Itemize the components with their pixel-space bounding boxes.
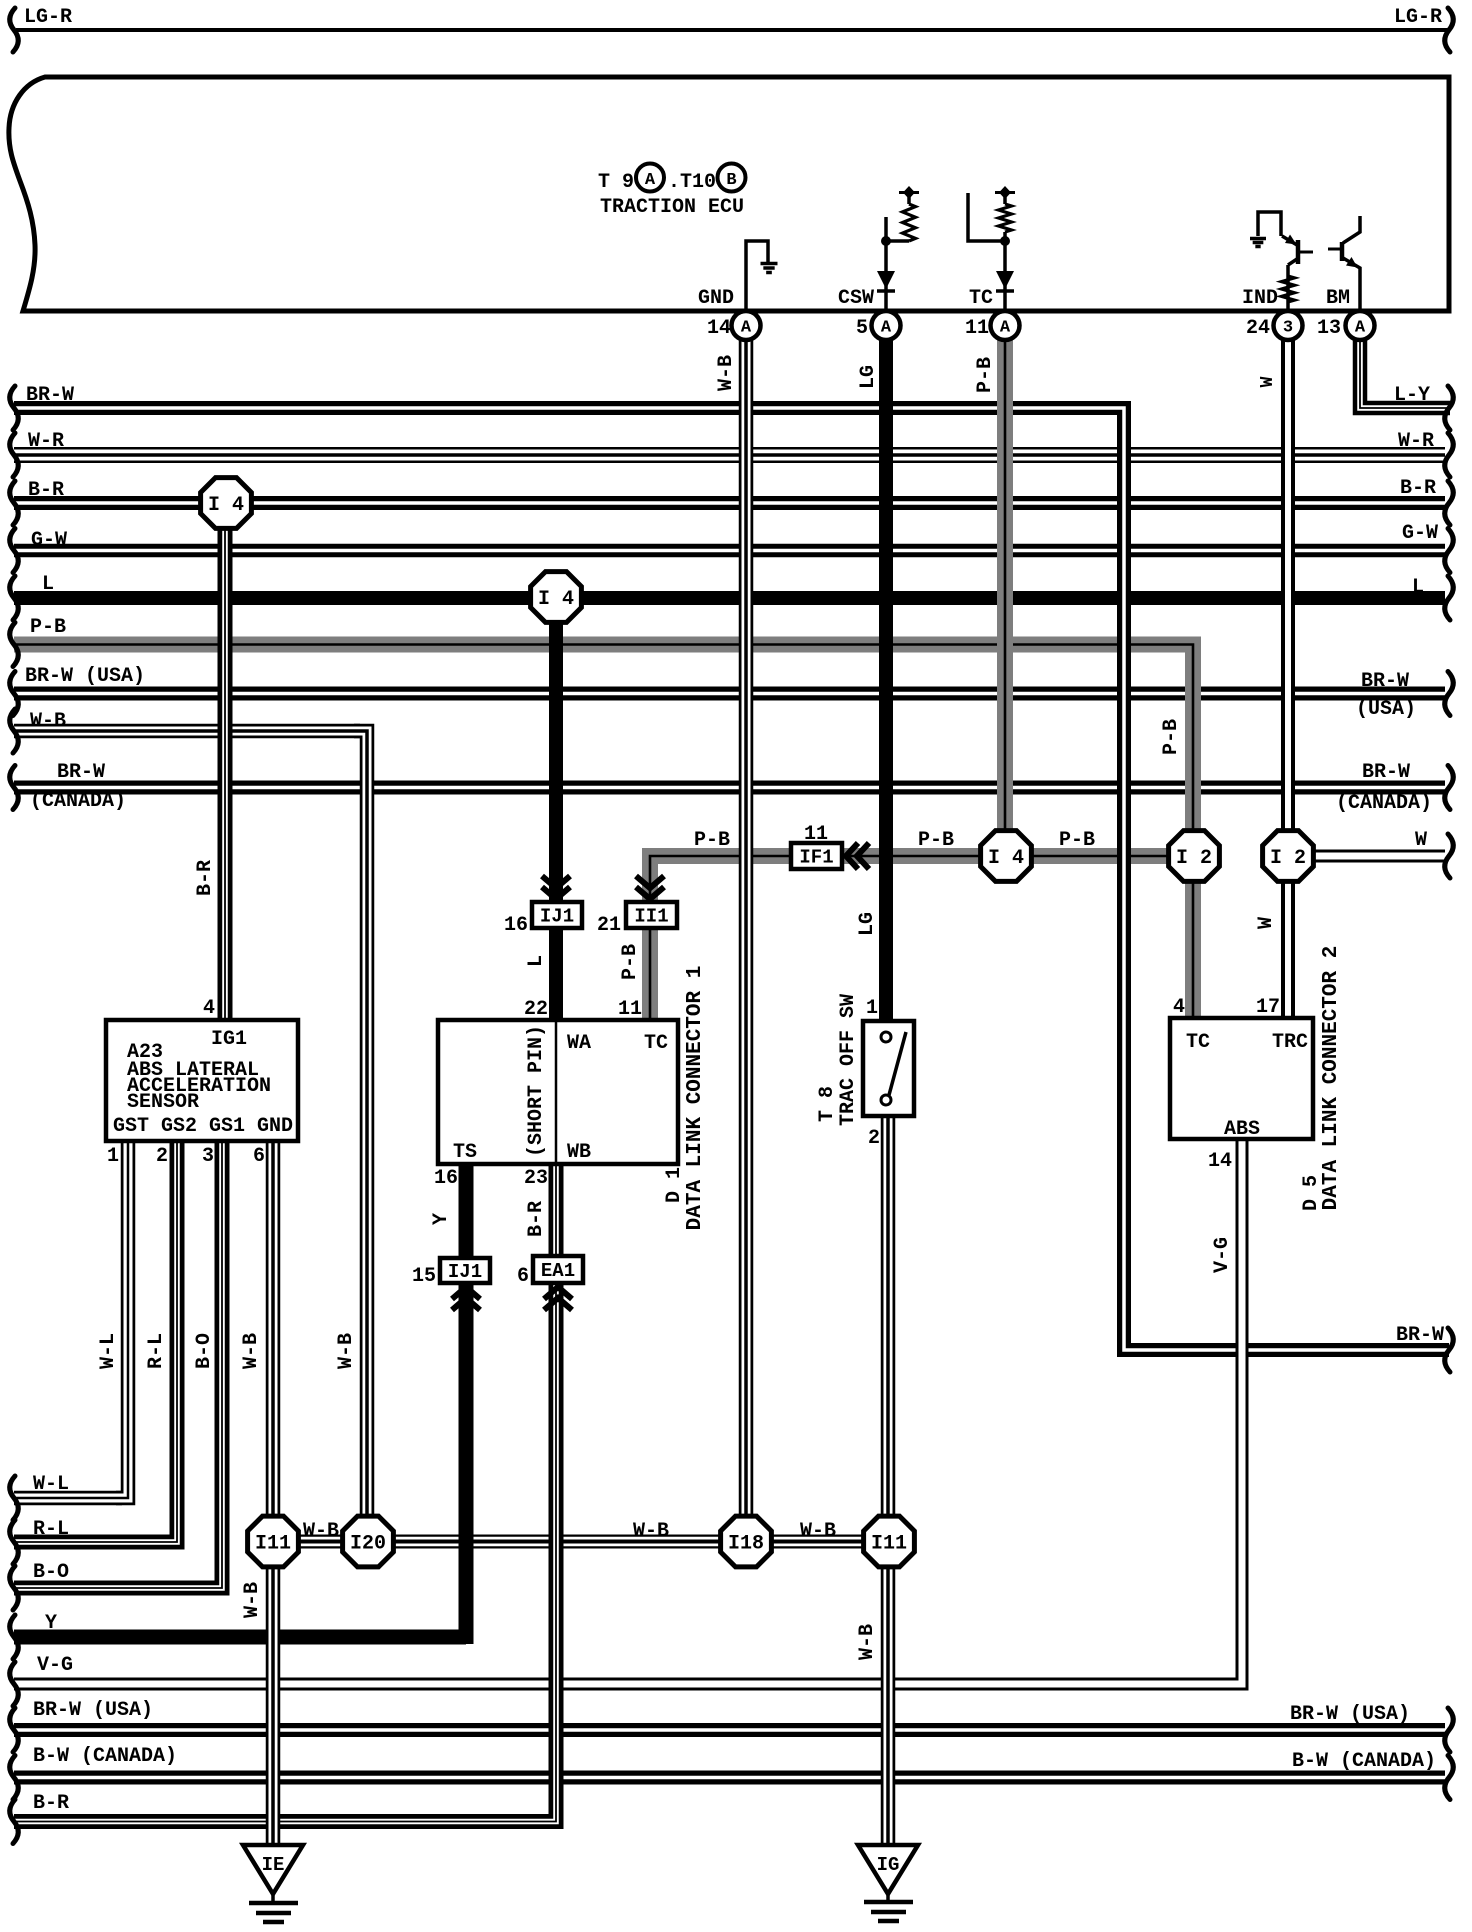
svg-text:4: 4 — [1173, 996, 1185, 1019]
svg-text:P-B: P-B — [974, 357, 997, 393]
svg-text:(CANADA): (CANADA) — [30, 790, 126, 813]
svg-text:V-G: V-G — [1211, 1237, 1234, 1273]
wire bus W-L — [14, 1491, 122, 1506]
wire P-B from II1 to D1 — [650, 856, 666, 1024]
break symbol left y=455 — [10, 433, 19, 477]
break symbol left y=787.5 — [10, 766, 19, 810]
break symbol left y=1542 — [10, 1520, 19, 1564]
wire bus BR-W (USA) bottom — [14, 1723, 1445, 1737]
ground IG — [858, 1845, 918, 1894]
ECU pin 11(A) TC — [991, 311, 1020, 340]
svg-text:13: 13 — [1317, 317, 1341, 340]
svg-text:P-B: P-B — [918, 829, 954, 852]
svg-text:II1: II1 — [634, 906, 668, 928]
svg-text:A: A — [645, 171, 656, 190]
svg-text:B-W (CANADA): B-W (CANADA) — [33, 1745, 177, 1768]
svg-text:G-W: G-W — [1402, 522, 1438, 545]
ECU pin 14(A) GND — [732, 311, 761, 340]
svg-text:1: 1 — [107, 1145, 119, 1168]
svg-text:TRACTION ECU: TRACTION ECU — [600, 196, 744, 219]
svg-text:W-L: W-L — [33, 1473, 69, 1496]
break symbol left y=1777.5 — [10, 1756, 19, 1800]
break symbol left y=644.5 — [10, 623, 19, 667]
wire W row right — [1288, 850, 1445, 863]
break symbol right y=408 — [1445, 386, 1454, 430]
wire bus BR-W (USA) top — [14, 687, 1445, 701]
svg-text:(SHORT PIN): (SHORT PIN) — [525, 1025, 548, 1157]
svg-text:I20: I20 — [350, 1533, 386, 1556]
svg-text:TC: TC — [644, 1032, 668, 1055]
wire W-B bus corner to I20 — [354, 731, 367, 1541]
svg-text:A: A — [1000, 319, 1011, 338]
break symbol left y=503 — [10, 481, 19, 525]
svg-text:A: A — [1355, 319, 1366, 338]
wire bus G-W — [14, 544, 1445, 558]
svg-text:V-G: V-G — [37, 1654, 73, 1677]
break symbol left y=598 — [10, 576, 19, 620]
svg-text:2: 2 — [156, 1145, 168, 1168]
arrow from IJ1 pin15 — [452, 1287, 480, 1299]
connector I11 left — [248, 1516, 299, 1567]
break symbol right y=693.5 — [1445, 672, 1454, 716]
svg-text:EA1: EA1 — [541, 1260, 575, 1282]
svg-text:17: 17 — [1256, 996, 1280, 1019]
wire bus W-R — [14, 447, 1445, 463]
svg-text:2: 2 — [868, 1127, 880, 1150]
break symbol left y=1684 — [10, 1662, 19, 1706]
break symbol left y=1637 — [10, 1615, 19, 1659]
svg-text:IND: IND — [1242, 287, 1278, 310]
wire Y from D1 TS — [459, 1160, 474, 1644]
wire bus B-O — [14, 1581, 215, 1596]
connector I4 on B-R bus — [201, 478, 252, 529]
wire BR-W corner right — [1110, 408, 1449, 1350]
svg-text:IG1: IG1 — [211, 1028, 247, 1051]
svg-text:W-R: W-R — [28, 430, 64, 453]
wire L thick from I4 to D1 — [549, 610, 563, 1024]
svg-text:IF1: IF1 — [799, 847, 833, 869]
arrow into IJ1 — [542, 876, 570, 888]
svg-text:G-W: G-W — [31, 529, 67, 552]
svg-text:BR-W: BR-W — [57, 761, 105, 784]
wire P-B row IF1 — [650, 848, 1186, 864]
svg-text:IE: IE — [262, 1854, 285, 1876]
svg-text:(USA): (USA) — [1356, 698, 1416, 721]
svg-text:SENSOR: SENSOR — [127, 1091, 199, 1114]
svg-text:11: 11 — [804, 823, 828, 846]
svg-text:I11: I11 — [255, 1533, 291, 1556]
wire bus P-B — [14, 637, 1186, 653]
svg-text:I 4: I 4 — [988, 847, 1024, 870]
svg-text:14: 14 — [1208, 1150, 1232, 1173]
svg-text:P-B: P-B — [694, 829, 730, 852]
break symbol right y=503 — [1445, 481, 1454, 525]
break symbol left y=693.5 — [10, 672, 19, 716]
svg-text:LG: LG — [857, 365, 880, 389]
arrow into IF1 — [846, 843, 858, 869]
svg-text:W: W — [1255, 917, 1278, 929]
wire W-B to A23 pin6 and IE — [266, 1132, 281, 1852]
wire P-B branch to D5 — [1180, 645, 1193, 1025]
svg-text:B-R: B-R — [194, 860, 217, 896]
svg-text:P-B: P-B — [30, 616, 66, 639]
svg-text:14: 14 — [707, 317, 731, 340]
svg-text:L: L — [1412, 576, 1424, 599]
svg-text:16: 16 — [504, 914, 528, 937]
svg-text:.T10: .T10 — [668, 171, 716, 194]
svg-text:W-B: W-B — [241, 1582, 264, 1618]
svg-text:GST GS2 GS1 GND: GST GS2 GS1 GND — [113, 1115, 293, 1138]
svg-text:W-B: W-B — [335, 1333, 358, 1369]
wire bus B-R bottom — [14, 1814, 549, 1829]
break symbol right y=1730 — [1445, 1708, 1454, 1752]
wire bus B-W (CANADA) bottom — [14, 1771, 1445, 1785]
svg-text:(CANADA): (CANADA) — [1336, 792, 1432, 815]
connector EA1 pin 6 — [533, 1256, 583, 1283]
wire bus R-L — [14, 1535, 170, 1550]
ECU pin 5(A) CSW — [872, 311, 901, 340]
ECU pin 13(A) BM — [1346, 311, 1375, 340]
connector IJ1 pin 16 — [532, 902, 582, 928]
svg-text:DATA LINK CONNECTOR 1: DATA LINK CONNECTOR 1 — [684, 966, 707, 1231]
break symbol right y=856 — [1445, 834, 1454, 878]
break symbol left y=1821.5 — [10, 1800, 19, 1844]
connector I4 on L bus — [531, 572, 582, 623]
connector I2 right — [1263, 831, 1314, 882]
svg-text:3: 3 — [202, 1145, 214, 1168]
wire P-B from TC pin — [997, 330, 1013, 858]
wire LG-R top — [16, 28, 1449, 32]
svg-text:BR-W (USA): BR-W (USA) — [25, 665, 145, 688]
wire B-R from D1 WB — [542, 1160, 556, 1822]
connector I20 — [343, 1516, 394, 1567]
svg-text:W-B: W-B — [856, 1624, 879, 1660]
svg-text:WA: WA — [567, 1032, 591, 1055]
svg-text:TS: TS — [453, 1141, 477, 1164]
svg-text:W-R: W-R — [1398, 430, 1434, 453]
svg-text:B-W (CANADA): B-W (CANADA) — [1292, 1750, 1436, 1773]
svg-text:LG: LG — [856, 912, 879, 936]
break symbol right y=550.5 — [1445, 529, 1454, 573]
svg-text:W-B: W-B — [633, 1520, 669, 1543]
wire W-B octagon row — [273, 1535, 890, 1549]
svg-text:15: 15 — [412, 1265, 436, 1288]
svg-text:TC: TC — [969, 287, 993, 310]
svg-text:LG-R: LG-R — [24, 6, 72, 29]
svg-text:ABS: ABS — [1224, 1118, 1260, 1141]
svg-text:R-L: R-L — [33, 1518, 69, 1541]
wire R-L to A23 pin2 — [164, 1132, 177, 1542]
break symbol right y=455 — [1445, 433, 1454, 477]
svg-text:W-B: W-B — [303, 1520, 339, 1543]
ECU pin 24(3) IND — [1274, 311, 1303, 340]
svg-text:I 2: I 2 — [1270, 847, 1306, 870]
component A23 ABS lateral acceleration sensor — [106, 1020, 298, 1141]
wire L-Y from BM pin — [1360, 330, 1450, 408]
component D5 data link connector 2 — [1170, 1018, 1313, 1139]
svg-text:I18: I18 — [728, 1533, 764, 1556]
svg-text:16: 16 — [434, 1167, 458, 1190]
ECU internal ground at GND pin — [746, 241, 768, 311]
svg-text:22: 22 — [524, 998, 548, 1021]
arrow into II1 — [636, 876, 664, 888]
ECU internal transistor at BM — [1343, 216, 1360, 243]
svg-text:W: W — [1258, 376, 1278, 387]
wire W-B from GND pin — [739, 330, 754, 1541]
wire W-L to A23 pin1 — [116, 1132, 128, 1498]
component T8 TRAC OFF SW — [863, 1021, 914, 1116]
svg-text:IJ1: IJ1 — [448, 1261, 482, 1283]
svg-text:W-B: W-B — [800, 1520, 836, 1543]
svg-text:P-B: P-B — [1059, 829, 1095, 852]
component D1 data link connector 1 — [438, 1020, 678, 1164]
wire bus B-R — [14, 496, 1445, 510]
wire W-B from T8 to IG — [881, 1110, 896, 1852]
wire bus Y — [14, 1630, 466, 1645]
svg-text:BR-W: BR-W — [1396, 1324, 1444, 1347]
break symbol left y=408 — [10, 386, 19, 430]
svg-text:3: 3 — [1283, 319, 1293, 338]
svg-text:Y: Y — [45, 1612, 57, 1635]
wire B-O to A23 pin3 — [209, 1132, 222, 1588]
svg-text:1: 1 — [866, 997, 878, 1020]
svg-text:TRC: TRC — [1272, 1031, 1308, 1054]
svg-text:W-B: W-B — [715, 355, 738, 391]
connector II1 pin 21 — [626, 902, 677, 928]
svg-text:6: 6 — [253, 1145, 265, 1168]
wire bus W-B — [14, 724, 360, 739]
svg-text:11: 11 — [965, 317, 989, 340]
svg-text:GND: GND — [698, 287, 734, 310]
svg-text:BR-W (USA): BR-W (USA) — [1290, 1703, 1410, 1726]
ECU internal diode/resistor at CSW — [884, 217, 888, 311]
connector I4 on P-B row — [981, 831, 1032, 882]
arrow from EA1 pin6 — [544, 1287, 572, 1299]
svg-text:DATA LINK CONNECTOR 2: DATA LINK CONNECTOR 2 — [1320, 946, 1343, 1211]
svg-text:WB: WB — [567, 1141, 591, 1164]
svg-text:B-O: B-O — [33, 1561, 69, 1584]
svg-text:T 8: T 8 — [816, 1086, 839, 1122]
svg-text:A: A — [881, 319, 892, 338]
svg-text:L: L — [525, 955, 548, 967]
wire B-R from I4 to A23 — [218, 510, 233, 1026]
svg-text:L: L — [42, 573, 54, 596]
svg-text:I 4: I 4 — [208, 494, 244, 517]
svg-text:BM: BM — [1326, 287, 1350, 310]
connector I11 right — [864, 1516, 915, 1567]
svg-text:R-L: R-L — [145, 1333, 168, 1369]
wire bus BR-W top — [14, 401, 1117, 415]
break symbol left y=731 — [10, 709, 19, 753]
svg-text:TRAC OFF SW: TRAC OFF SW — [837, 994, 860, 1126]
ECU internal diode/resistor at TC — [1003, 241, 1007, 311]
svg-text:I11: I11 — [871, 1533, 907, 1556]
break symbol right y=787.5 — [1445, 766, 1454, 810]
svg-text:BR-W: BR-W — [1362, 761, 1410, 784]
wire LG from CSW pin — [879, 330, 893, 1026]
svg-text:5: 5 — [856, 317, 868, 340]
svg-text:W-B: W-B — [240, 1333, 263, 1369]
svg-text:B-R: B-R — [525, 1201, 548, 1237]
break symbol left y=550.5 — [10, 529, 19, 573]
connector IJ1 pin 15 — [440, 1258, 490, 1283]
svg-text:I 2: I 2 — [1176, 847, 1212, 870]
svg-text:W: W — [1415, 829, 1427, 852]
ground IE — [243, 1845, 303, 1894]
svg-text:W-B: W-B — [30, 710, 66, 733]
svg-text:I 4: I 4 — [538, 588, 574, 611]
break symbol left y=30 — [10, 8, 19, 52]
connector IF1 pin 11 — [791, 843, 842, 869]
svg-text:TC: TC — [1186, 1031, 1210, 1054]
connector I18 — [721, 1516, 772, 1567]
break symbol left y=1730 — [10, 1708, 19, 1752]
svg-text:21: 21 — [597, 914, 621, 937]
svg-text:23: 23 — [524, 1167, 548, 1190]
svg-text:Y: Y — [430, 1213, 453, 1225]
svg-text:B-R: B-R — [33, 1792, 69, 1815]
wire bus L — [14, 591, 1445, 605]
svg-text:11: 11 — [618, 998, 642, 1021]
svg-text:24: 24 — [1246, 317, 1270, 340]
svg-text:IG: IG — [877, 1854, 900, 1876]
svg-text:P-B: P-B — [1160, 719, 1183, 755]
svg-text:6: 6 — [517, 1265, 529, 1288]
svg-text:P-B: P-B — [619, 944, 642, 980]
traction ECU box T9/T10 — [9, 77, 1449, 311]
svg-text:B: B — [726, 171, 736, 190]
wire V-G from D5 to bus — [1228, 1132, 1242, 1684]
ECU internal transistor at IND — [1258, 212, 1281, 236]
svg-text:LG-R: LG-R — [1394, 6, 1442, 29]
svg-text:A: A — [741, 319, 752, 338]
break symbol right y=598 — [1445, 576, 1454, 620]
connector I2 left — [1169, 831, 1220, 882]
svg-text:B-R: B-R — [28, 479, 64, 502]
svg-text:IJ1: IJ1 — [540, 906, 574, 928]
svg-text:BR-W: BR-W — [26, 384, 74, 407]
break symbol right y=1777.5 — [1445, 1756, 1454, 1800]
break symbol left y=1588 — [10, 1566, 19, 1610]
svg-text:CSW: CSW — [838, 287, 874, 310]
svg-text:T 9: T 9 — [598, 171, 634, 194]
svg-text:BR-W (USA): BR-W (USA) — [33, 1699, 153, 1722]
svg-text:W-L: W-L — [97, 1333, 120, 1369]
break symbol right y=1350 — [1445, 1328, 1454, 1372]
wire bus V-G — [14, 1678, 1235, 1691]
svg-text:BR-W: BR-W — [1361, 670, 1409, 693]
break symbol right y=30 — [1445, 8, 1454, 52]
wire bus BR-W (CANADA) top — [14, 781, 1445, 795]
svg-text:B-R: B-R — [1400, 477, 1436, 500]
svg-text:D 1: D 1 — [663, 1167, 686, 1203]
svg-text:L-Y: L-Y — [1394, 384, 1430, 407]
svg-text:B-O: B-O — [193, 1333, 216, 1369]
break symbol left y=1498 — [10, 1476, 19, 1520]
svg-text:4: 4 — [203, 997, 215, 1020]
wire W from IND pin — [1281, 330, 1295, 1024]
